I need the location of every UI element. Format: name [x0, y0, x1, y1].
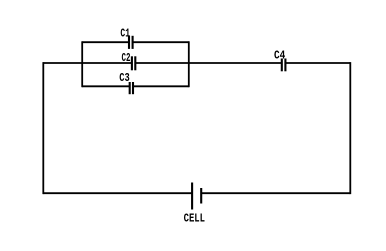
- wire box left vertical: [81, 41, 83, 87]
- wire C3 branch right: [133, 85, 189, 87]
- capacitor C1 plates: [128, 36, 130, 49]
- wire left vertical: [42, 62, 44, 194]
- wire middle branch right (from C2): [135, 62, 189, 64]
- wire right vertical: [349, 62, 351, 194]
- svg-text:C3: C3: [119, 71, 130, 85]
- wire top-left segment: [43, 62, 82, 64]
- wire C3 branch left: [82, 85, 130, 87]
- wire middle branch left (to C2): [82, 62, 132, 64]
- svg-text:C2: C2: [122, 51, 131, 65]
- capacitor C2 plates: [131, 56, 133, 70]
- svg-text:C1: C1: [120, 27, 130, 41]
- svg-text:C4: C4: [274, 48, 285, 62]
- wire top main (box to C4): [189, 62, 282, 64]
- cell long plate: [191, 183, 193, 210]
- wire box right vertical: [188, 41, 190, 87]
- capacitor C4 plates: [281, 59, 283, 72]
- wire top main (C4 to right corner): [285, 62, 350, 64]
- capacitor C3 plates: [129, 82, 131, 94]
- wire C1 branch left: [82, 41, 129, 43]
- cell short plate: [200, 188, 202, 204]
- wire bottom right (from cell): [201, 192, 350, 194]
- wire C1 branch right: [133, 41, 189, 43]
- wire bottom left (to cell): [43, 192, 192, 194]
- svg-text:CELL: CELL: [184, 212, 205, 226]
